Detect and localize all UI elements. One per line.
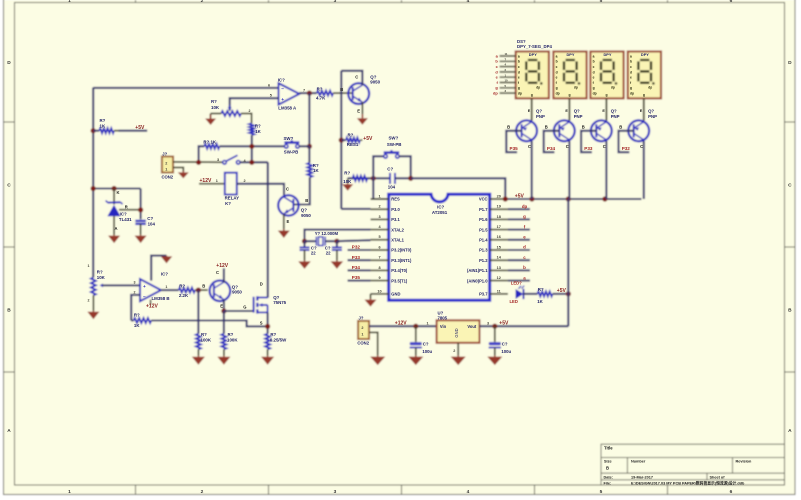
Q1 collector wire up and left to rail [341, 71, 362, 86]
op-amp B top pin to ground [151, 256, 166, 281]
feedback wire to source sense node [151, 321, 266, 327]
potentiometer R? 10K (setpoint) [91, 278, 96, 296]
svg-text:g: g [569, 93, 571, 97]
regulator U? 7805 [437, 320, 480, 343]
+12V wire to regulator [369, 325, 437, 327]
svg-text:C: C [788, 183, 792, 189]
svg-text:100K: 100K [201, 337, 212, 342]
svg-text:6: 6 [378, 245, 380, 249]
svg-text:E: E [287, 219, 290, 224]
svg-text:22: 22 [311, 250, 316, 255]
net label c (display) [500, 66, 516, 68]
capacitor C? 22 (left) [303, 241, 305, 247]
svg-text:2: 2 [165, 161, 167, 165]
reset node wire [348, 177, 390, 179]
svg-text:PNP: PNP [611, 114, 620, 119]
CON2 pin1 to ground [173, 168, 183, 172]
+5V output wire [480, 325, 569, 327]
svg-text:C: C [355, 74, 358, 79]
resistor R? 10K to ground [353, 176, 368, 181]
wire: op-amp A + input from pot wiper [230, 98, 279, 111]
svg-text:20: 20 [497, 194, 501, 198]
capacitor C? 100u (output) [494, 326, 496, 342]
svg-text:P33: P33 [584, 146, 593, 151]
svg-text:7: 7 [378, 256, 380, 260]
ground [197, 356, 199, 357]
svg-text:3: 3 [334, 0, 337, 4]
svg-text:P1.3: P1.3 [479, 248, 488, 253]
svg-text:1K: 1K [255, 129, 261, 134]
svg-text:4: 4 [467, 489, 470, 495]
capacitor C? 104 (series on reset row) [389, 173, 391, 184]
svg-text:c: c [518, 65, 520, 69]
svg-text:104: 104 [148, 221, 156, 226]
svg-text:P1.2: P1.2 [479, 258, 488, 263]
Q2 collector to +5V rail [568, 141, 570, 199]
svg-text:+: + [281, 98, 284, 103]
transistor Q? PNP digit 1 [516, 120, 537, 141]
svg-text:A: A [115, 226, 118, 231]
MCU pin 9 P3.5(T1) [371, 280, 389, 282]
svg-text:R?: R? [179, 283, 185, 288]
MCU pin 12 (AIN0)P1.0 [490, 280, 508, 282]
svg-text:DS?: DS? [517, 39, 526, 44]
display 4 common pin to transistor [643, 98, 645, 120]
svg-text:10K: 10K [343, 179, 352, 184]
MCU pin 1 RES [371, 198, 389, 200]
svg-text:d: d [556, 70, 558, 74]
net label f (display) [500, 82, 516, 84]
svg-text:g: g [643, 93, 645, 97]
svg-text:10: 10 [505, 79, 509, 83]
ground [113, 234, 115, 237]
svg-text:Date:: Date: [604, 475, 614, 479]
svg-text:P3.3(INT1): P3.3(INT1) [391, 258, 412, 263]
svg-text:A: A [7, 428, 11, 434]
svg-text:1: 1 [427, 321, 429, 325]
net label a (display) [500, 55, 516, 57]
svg-text:2.2K: 2.2K [179, 293, 189, 298]
ground [140, 234, 142, 237]
MCU pin 13 (AIN1)P1.1 [490, 269, 508, 271]
svg-text:B: B [7, 308, 11, 314]
svg-text:8: 8 [378, 266, 380, 270]
svg-text:15: 15 [497, 245, 501, 249]
svg-text:3: 3 [487, 321, 489, 325]
svg-text:b: b [518, 60, 520, 64]
Q2 emitter to ground [283, 214, 285, 229]
svg-text:E: E [220, 304, 223, 309]
svg-text:2: 2 [244, 179, 246, 183]
svg-text:C: C [216, 270, 219, 275]
svg-text:dp: dp [630, 92, 634, 96]
junction VCC rail [529, 196, 534, 201]
svg-text:1K: 1K [537, 299, 543, 304]
potentiometer R? 10K [221, 111, 241, 116]
svg-text:5: 5 [600, 0, 603, 4]
svg-text:B: B [202, 283, 205, 288]
LED on P3.7 [516, 289, 524, 299]
Q4 base bracket to net label P32 [619, 131, 634, 152]
capacitor C? 22 (right) [336, 241, 338, 247]
op-amp U1 LM358 A [279, 83, 300, 104]
svg-text:9: 9 [378, 276, 380, 280]
ground [370, 299, 372, 300]
MCU pin 4 XTAL2 [371, 229, 389, 231]
svg-text:XTAL1: XTAL1 [391, 238, 404, 243]
net label dp (display) [500, 92, 516, 94]
svg-text:C: C [640, 144, 643, 149]
net label a (MCU side) [508, 280, 530, 282]
svg-text:R?: R? [211, 99, 217, 104]
svg-text:IC?: IC? [161, 271, 168, 276]
svg-text:D: D [7, 60, 11, 66]
svg-text:2: 2 [134, 290, 136, 294]
svg-text:SW-PB: SW-PB [387, 142, 402, 147]
svg-text:+: + [143, 285, 146, 290]
svg-text:g: g [593, 86, 595, 90]
svg-text:dp: dp [518, 92, 522, 96]
svg-text:dp: dp [574, 86, 578, 90]
svg-text:GND: GND [454, 328, 459, 337]
svg-text:B: B [606, 466, 609, 471]
svg-text:R?: R? [100, 118, 106, 123]
svg-text:2: 2 [88, 299, 90, 303]
svg-text:2: 2 [201, 0, 204, 4]
svg-text:E: E [640, 109, 643, 113]
+5V rail over VCC pin [505, 198, 641, 200]
svg-text:75N75: 75N75 [273, 300, 286, 305]
svg-text:RES: RES [391, 197, 400, 202]
resistor R? 4.7K [317, 91, 333, 96]
svg-text:SW-PB: SW-PB [284, 149, 299, 154]
svg-text:P3.1: P3.1 [391, 217, 400, 222]
MCU pin 17 P1.5 [490, 229, 508, 231]
svg-text:12: 12 [497, 276, 501, 280]
ground [415, 355, 417, 356]
ground [377, 355, 379, 356]
svg-text:Sheet of: Sheet of [710, 475, 726, 479]
junction rail/TL431 row [91, 186, 96, 191]
svg-text:(AIN1)P1.1: (AIN1)P1.1 [467, 268, 488, 273]
MCU pin 19 P1.7 [490, 208, 508, 210]
svg-text:J?: J? [359, 315, 364, 320]
svg-text:6: 6 [268, 83, 270, 87]
svg-text:d: d [518, 70, 520, 74]
svg-text:g: g [531, 93, 533, 97]
wire reset node to MCU pin1 [373, 178, 388, 199]
svg-text:e: e [630, 76, 632, 80]
Q4 collector to +5V rail [643, 141, 645, 199]
svg-text:6: 6 [730, 0, 733, 4]
svg-text:g: g [630, 86, 632, 90]
MCU pin 3 P3.1 [371, 218, 389, 220]
wire R1K to Q2 base [294, 177, 310, 204]
svg-text:GND: GND [391, 292, 400, 297]
wire TL431 top row [93, 187, 140, 189]
gate drive wire [224, 310, 254, 312]
svg-text:C?: C? [147, 216, 153, 221]
svg-text:11: 11 [505, 52, 508, 56]
svg-text:2: 2 [201, 489, 204, 495]
svg-text:LED?: LED? [511, 281, 522, 286]
svg-text:a: a [630, 54, 632, 58]
svg-text:g: g [606, 93, 608, 97]
svg-text:DPY_7-SEG_DP4: DPY_7-SEG_DP4 [517, 44, 552, 49]
svg-text:2: 2 [361, 326, 363, 330]
svg-text:DPY: DPY [529, 52, 537, 57]
wire crystal to XTAL1 [337, 240, 371, 241]
svg-text:E: E [357, 108, 360, 113]
svg-text:1K: 1K [134, 323, 140, 328]
display 3 common pin to transistor [605, 98, 607, 120]
connector J? CON2 (power in) [358, 321, 369, 339]
svg-text:CON2: CON2 [357, 340, 369, 345]
svg-text:c: c [630, 65, 632, 69]
svg-text:VCC: VCC [479, 197, 488, 202]
wiper wire to op-amp B + input [103, 284, 140, 286]
svg-text:C?: C? [502, 342, 508, 347]
Q3 base bracket to net label P33 [581, 131, 596, 152]
svg-text:K: K [117, 190, 120, 195]
MCU pin 11 P3.7 [490, 293, 508, 295]
capacitor C? 100u (input) [415, 326, 417, 342]
svg-text:R?: R? [317, 87, 323, 92]
svg-text:g: g [556, 86, 558, 90]
svg-text:19: 19 [497, 205, 501, 209]
svg-text:R?: R? [228, 332, 234, 337]
junction SW-PB right [307, 144, 312, 149]
pot bottom to ground [92, 295, 94, 311]
svg-text:1: 1 [165, 285, 167, 289]
ground [361, 114, 363, 118]
svg-text:Q?: Q? [648, 108, 654, 113]
wire P3.0 from rail [341, 208, 370, 210]
7-seg display DPY digit 4 [628, 52, 661, 99]
svg-text:+5V: +5V [363, 136, 373, 142]
Q1 emitter to ground [361, 102, 363, 114]
junction VCC rail [503, 196, 508, 201]
svg-text:B: B [305, 198, 308, 203]
svg-text:e: e [556, 76, 558, 80]
net label c (MCU side) [508, 259, 530, 261]
svg-text:a: a [556, 54, 558, 58]
svg-text:10K: 10K [97, 275, 106, 280]
svg-text:1K: 1K [313, 168, 319, 173]
net label P35 [348, 280, 371, 282]
switch SW? SW-PB (reset) [373, 156, 384, 178]
net label d (display) [500, 71, 516, 73]
svg-text:5: 5 [378, 235, 380, 239]
op-amp B output [161, 289, 179, 291]
svg-text:P35: P35 [352, 275, 361, 280]
op-amp IC? LM358 B [140, 279, 161, 301]
svg-text:C: C [603, 144, 606, 149]
svg-text:(AIN0)P1.0: (AIN0)P1.0 [467, 278, 488, 283]
svg-text:C?: C? [387, 167, 393, 172]
wire to +5V net label [119, 130, 148, 132]
svg-text:2: 2 [378, 205, 380, 209]
svg-text:D: D [260, 282, 263, 287]
ground [267, 356, 269, 357]
svg-text:10: 10 [377, 289, 381, 293]
connector J? CON2 (sensor input) [162, 157, 173, 173]
junction with vertical from pot branch [249, 144, 254, 149]
svg-text:100K: 100K [227, 337, 238, 342]
svg-text:RES1: RES1 [347, 142, 359, 147]
ground [283, 229, 285, 231]
svg-text:b: b [630, 60, 632, 64]
svg-text:P34: P34 [547, 146, 556, 151]
svg-text:dp: dp [522, 204, 528, 209]
TL431 IC? (zener-style symbol) [113, 189, 115, 205]
svg-text:DPY: DPY [604, 52, 612, 57]
svg-text:S: S [260, 321, 263, 326]
title block [601, 444, 785, 485]
MCU pin 16 P1.4 [490, 239, 508, 241]
svg-text:a: a [593, 54, 595, 58]
junction ref node [138, 207, 143, 212]
display 2 common pin to transistor [568, 98, 570, 120]
svg-text:R?: R? [348, 132, 354, 137]
svg-text:Number: Number [631, 460, 646, 464]
wire: op-amp A output [299, 92, 317, 94]
transistor Q? PNP digit 4 [628, 120, 649, 141]
svg-text:DPY: DPY [641, 52, 649, 57]
transistor Q? PNP digit 3 [591, 120, 612, 141]
net label e (display) [500, 76, 516, 78]
transistor Q? 9050 (comparator output) [348, 83, 369, 104]
svg-text:6: 6 [730, 489, 733, 495]
svg-text:R?: R? [134, 313, 140, 318]
junction reset node [371, 176, 376, 181]
+5V vertical rail to VCC row [567, 199, 569, 326]
svg-text:R?: R? [201, 332, 207, 337]
wire LED to resistor [523, 293, 537, 295]
resistor R? 1K [538, 292, 553, 297]
resistor R? 100K (emitter node) [223, 311, 225, 334]
svg-text:e: e [518, 76, 520, 80]
svg-text:XTAL2: XTAL2 [391, 227, 404, 232]
svg-text:1: 1 [361, 333, 363, 337]
svg-text:PNP: PNP [648, 114, 657, 119]
wire to Q1 base [333, 92, 353, 94]
resistor R? 1K vertical under pot [249, 123, 254, 135]
svg-text:10K: 10K [211, 105, 220, 110]
junction [413, 324, 418, 329]
svg-text:5: 5 [270, 94, 272, 98]
net label e (MCU side) [508, 239, 530, 241]
svg-text:B: B [507, 124, 510, 129]
7-seg display DPY digit 2 [553, 52, 586, 99]
svg-text:G: G [243, 305, 246, 310]
long vertical to MOSFET drain [267, 162, 269, 297]
junction at R to +5V tap [91, 128, 96, 133]
svg-text:Title: Title [604, 446, 613, 451]
junction [334, 239, 339, 244]
op-amp B bottom power pin +12V [150, 300, 152, 305]
resistor R? 1K horizontal (latch row) [199, 146, 205, 162]
svg-text:Q?: Q? [536, 108, 542, 113]
Q2 base bracket to net label P34 [544, 131, 560, 152]
svg-text:g: g [523, 214, 526, 219]
svg-text:2: 2 [453, 349, 455, 353]
svg-text:R? 1K: R? 1K [203, 140, 217, 145]
svg-text:R?: R? [538, 287, 544, 292]
svg-text:P1.6: P1.6 [479, 217, 488, 222]
svg-text:1: 1 [216, 179, 218, 183]
net label b (MCU side) [508, 269, 530, 271]
transistor Q? 9050 (relay driver, mirrored) [278, 195, 298, 215]
MCU pin 6 P3.2(INT0) [371, 249, 389, 251]
svg-text:1: 1 [68, 489, 71, 495]
svg-text:9050: 9050 [301, 213, 311, 218]
svg-text:P33: P33 [352, 255, 361, 260]
svg-text:P3.2(INT0): P3.2(INT0) [391, 248, 412, 253]
svg-text:P35: P35 [510, 146, 519, 151]
MCU pin 15 P1.3 [490, 249, 508, 251]
svg-text:Revision: Revision [736, 460, 753, 464]
svg-text:3: 3 [134, 280, 136, 284]
CON2 pin2 wire to contact [173, 161, 224, 163]
svg-text:B: B [619, 124, 622, 129]
svg-text:AT2051: AT2051 [432, 210, 448, 215]
svg-text:PNP: PNP [536, 114, 545, 119]
capacitor C? 104 [135, 220, 146, 222]
TL431 anode to ground [113, 216, 115, 235]
7-seg display DPY digit 3 [590, 52, 623, 99]
svg-text:DPY: DPY [567, 52, 575, 57]
svg-text:−: − [143, 296, 146, 301]
svg-text:7805: 7805 [438, 316, 448, 321]
svg-text:C: C [7, 183, 11, 189]
svg-text:+12V: +12V [216, 263, 228, 269]
svg-text:P3.7: P3.7 [479, 292, 488, 297]
svg-text:11: 11 [497, 289, 501, 293]
pot right lead [241, 114, 252, 124]
junction [249, 160, 254, 165]
junction op-amp A output [307, 91, 312, 96]
svg-text:3: 3 [217, 158, 219, 162]
relay pin2 wire to Q2 collector [237, 184, 284, 195]
net label d (MCU side) [508, 249, 530, 251]
wire XTAL2 to crystal [305, 230, 371, 242]
MCU IC? AT2051 body [389, 194, 490, 300]
display 1 common pin to transistor [531, 98, 533, 120]
svg-text:4: 4 [467, 0, 470, 4]
svg-text:a: a [518, 54, 520, 58]
junction K tap [112, 186, 117, 191]
ground [304, 260, 306, 261]
ground [166, 255, 168, 258]
wire contact to drain rail [240, 161, 268, 163]
wire from switch to junction [299, 145, 309, 147]
svg-text:B: B [340, 87, 343, 92]
svg-text:LED: LED [510, 299, 518, 304]
junction B node [196, 288, 201, 293]
resistor R? RES1 pull to +5V [339, 138, 344, 143]
svg-text:dp: dp [536, 86, 540, 90]
svg-text:c: c [556, 65, 558, 69]
MCU pin 20 VCC [490, 198, 508, 200]
wire latch row [219, 145, 284, 147]
svg-text:C: C [566, 144, 569, 149]
svg-text:9050: 9050 [370, 80, 380, 85]
svg-text:+12V: +12V [200, 178, 212, 184]
svg-text:+5V: +5V [515, 193, 525, 199]
svg-text:P32: P32 [622, 146, 631, 151]
svg-text:A: A [788, 428, 792, 434]
